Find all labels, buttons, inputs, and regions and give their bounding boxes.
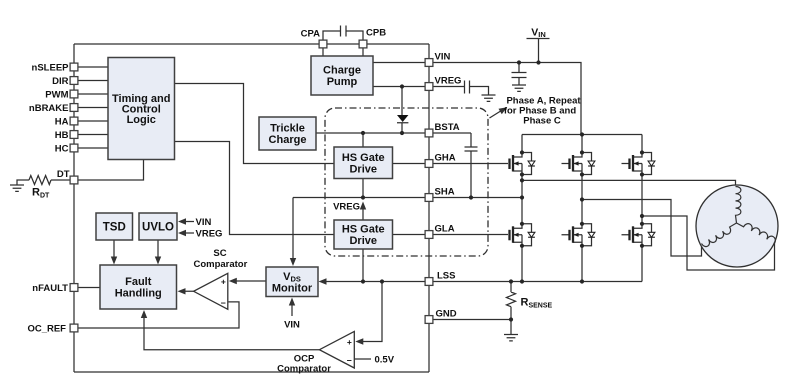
svg-text:BSTA: BSTA (435, 122, 460, 133)
svg-text:LSS: LSS (437, 271, 455, 282)
svg-text:Fault: Fault (125, 276, 152, 288)
svg-text:SC: SC (213, 248, 226, 259)
svg-text:nFAULT: nFAULT (32, 283, 68, 294)
svg-text:GND: GND (436, 309, 457, 320)
svg-text:HB: HB (55, 130, 69, 141)
svg-text:Phase C: Phase C (523, 116, 561, 127)
svg-text:RDT: RDT (32, 187, 50, 200)
svg-text:VREG: VREG (435, 76, 462, 87)
svg-text:SHA: SHA (435, 187, 455, 198)
svg-text:OC_REF: OC_REF (27, 324, 66, 335)
svg-text:Logic: Logic (127, 114, 156, 126)
svg-text:VIN: VIN (284, 320, 300, 331)
svg-text:DIR: DIR (52, 76, 69, 87)
svg-text:UVLO: UVLO (142, 222, 174, 234)
svg-text:GLA: GLA (435, 224, 455, 235)
svg-text:VIN: VIN (531, 26, 546, 39)
svg-text:HA: HA (55, 116, 69, 127)
svg-text:VIN: VIN (435, 52, 451, 63)
svg-text:RSENSE: RSENSE (521, 297, 553, 310)
svg-text:+: + (221, 276, 226, 286)
svg-text:VIN: VIN (196, 217, 212, 228)
svg-text:CPA: CPA (301, 29, 320, 40)
svg-text:–: – (221, 297, 226, 307)
svg-text:TSD: TSD (103, 222, 126, 234)
svg-text:Comparator: Comparator (277, 363, 331, 374)
svg-text:Drive: Drive (349, 235, 377, 247)
svg-text:HS Gate: HS Gate (342, 224, 385, 236)
svg-text:CPB: CPB (366, 27, 386, 38)
svg-text:Comparator: Comparator (193, 259, 247, 270)
svg-text:VREG: VREG (333, 202, 360, 213)
svg-text:PWM: PWM (45, 89, 68, 100)
svg-text:HS Gate: HS Gate (342, 152, 385, 164)
svg-text:Monitor: Monitor (272, 282, 313, 294)
svg-text:Drive: Drive (349, 163, 377, 175)
svg-text:Charge: Charge (323, 65, 361, 77)
svg-text:Handling: Handling (115, 288, 162, 300)
svg-text:Charge: Charge (269, 134, 307, 146)
svg-text:DT: DT (57, 169, 70, 180)
svg-text:Pump: Pump (327, 76, 358, 88)
svg-text:Trickle: Trickle (270, 123, 305, 135)
svg-text:nBRAKE: nBRAKE (29, 103, 69, 114)
svg-text:+: + (347, 337, 352, 347)
svg-text:VREG: VREG (196, 228, 223, 239)
svg-text:GHA: GHA (435, 153, 456, 164)
svg-text:–: – (347, 355, 352, 365)
svg-text:nSLEEP: nSLEEP (32, 62, 70, 73)
svg-text:0.5V: 0.5V (375, 355, 395, 366)
svg-text:HC: HC (55, 143, 69, 154)
